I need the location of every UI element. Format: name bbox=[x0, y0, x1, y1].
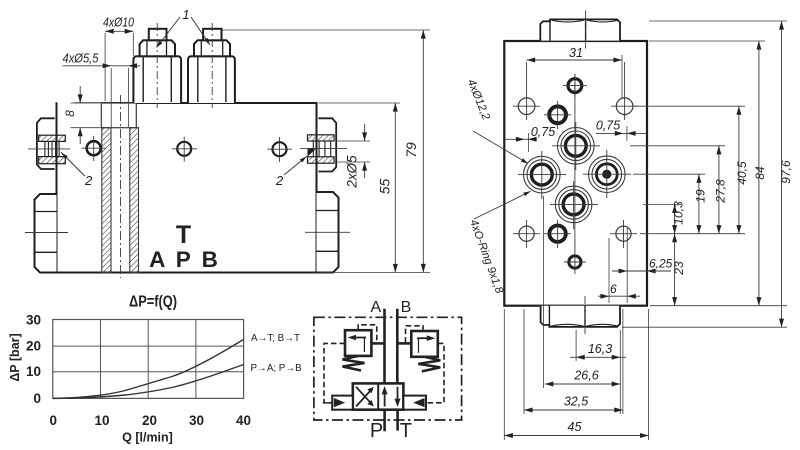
port label P bbox=[370, 420, 383, 442]
svg-text:26,6: 26,6 bbox=[573, 369, 598, 383]
right gland centerline bbox=[300, 148, 347, 150]
label 1 leader bbox=[155, 7, 212, 49]
relief valve left outlet bbox=[371, 342, 384, 345]
relief valve left spring bbox=[343, 356, 365, 371]
dimension 23 bbox=[672, 234, 686, 306]
relief valve left square bbox=[345, 330, 371, 356]
svg-text:B: B bbox=[202, 247, 218, 272]
svg-text:31: 31 bbox=[569, 46, 583, 60]
svg-text:ΔP [bar]: ΔP [bar] bbox=[8, 333, 22, 381]
relief valve right spring bbox=[418, 357, 440, 372]
relief valve right drain dashed bbox=[426, 343, 444, 402]
svg-text:T: T bbox=[400, 420, 412, 442]
actuator right bbox=[403, 396, 426, 410]
curve A-T B-T bbox=[53, 339, 244, 398]
dimension 8 bbox=[63, 86, 101, 144]
relief valve left pilot dashed bbox=[358, 325, 377, 344]
enclosure dash-dot box bbox=[314, 317, 462, 420]
directional valve left cell X bbox=[356, 387, 374, 407]
graph title bbox=[129, 294, 177, 311]
svg-text:T: T bbox=[176, 221, 191, 249]
port label A bbox=[370, 299, 381, 316]
fitting 2 centerline bbox=[211, 23, 213, 108]
svg-text:20: 20 bbox=[142, 413, 157, 428]
svg-text:84: 84 bbox=[753, 166, 767, 180]
svg-text:2: 2 bbox=[275, 173, 284, 188]
dimension 16,3 bbox=[570, 342, 626, 360]
svg-text:45: 45 bbox=[568, 420, 582, 434]
hole thin top-left bbox=[513, 62, 540, 120]
fitting 2 right top square bbox=[203, 29, 221, 41]
svg-text:20: 20 bbox=[26, 339, 41, 354]
svg-text:ΔP=f(Q): ΔP=f(Q) bbox=[129, 294, 177, 311]
extension lines right side bbox=[622, 21, 787, 327]
port letter A bbox=[149, 247, 165, 272]
hole big bottom bbox=[550, 181, 598, 229]
dimension 6,25 bbox=[609, 228, 673, 303]
svg-text:30: 30 bbox=[26, 313, 41, 328]
bore centerline bbox=[120, 95, 122, 278]
hole big left bbox=[518, 151, 566, 199]
hole big top bbox=[552, 122, 600, 170]
fitting 2 right mid hex bbox=[194, 40, 230, 56]
fitting 2 right base hex bbox=[188, 56, 235, 103]
hole thin bottom-left bbox=[513, 220, 540, 248]
dimension 40,5 bbox=[735, 106, 749, 234]
bore hatch right band bbox=[130, 128, 139, 273]
hole big right bbox=[583, 150, 631, 198]
svg-text:97,6: 97,6 bbox=[779, 160, 793, 184]
left gland fitting nut bbox=[37, 118, 55, 169]
svg-text:B: B bbox=[401, 299, 412, 316]
dimension 4xO5,5 bbox=[63, 52, 141, 128]
svg-text:10,3: 10,3 bbox=[672, 201, 686, 225]
y axis labels bbox=[26, 313, 41, 406]
left gland centerline bbox=[28, 148, 70, 150]
dimension 10,3 bbox=[672, 201, 686, 234]
port letter T bbox=[176, 221, 191, 249]
port hole right bbox=[267, 137, 292, 162]
directional valve body bbox=[353, 383, 404, 409]
dimension 19 bbox=[694, 174, 708, 234]
hole bold upper bbox=[544, 101, 571, 129]
line B bbox=[396, 309, 399, 384]
relief valve right pilot dashed bbox=[406, 326, 424, 344]
svg-text:Q [l/min]: Q [l/min] bbox=[122, 431, 173, 445]
relief valve left drain dashed bbox=[324, 343, 345, 402]
bottom tab hex bbox=[541, 296, 620, 334]
label 4xO12,2 bbox=[465, 78, 529, 166]
dimension 84 bbox=[753, 41, 767, 306]
svg-text:1: 1 bbox=[182, 7, 189, 22]
svg-text:6: 6 bbox=[610, 282, 617, 296]
relief valve right square bbox=[411, 331, 438, 357]
svg-text:8: 8 bbox=[63, 110, 77, 117]
relief valve right outlet bbox=[397, 342, 411, 345]
svg-text:10: 10 bbox=[94, 413, 109, 428]
svg-text:10: 10 bbox=[26, 364, 41, 379]
svg-text:23: 23 bbox=[672, 261, 686, 276]
dimension 79 bbox=[222, 30, 430, 273]
bore hatch left band bbox=[102, 128, 111, 273]
dimension 6 bbox=[598, 282, 640, 299]
fitting 1 left base hex bbox=[133, 56, 181, 103]
counterbore 4xO10 bbox=[101, 103, 136, 128]
svg-text:2xØ5: 2xØ5 bbox=[345, 155, 360, 189]
dimension 31 bbox=[527, 46, 622, 98]
svg-text:79: 79 bbox=[403, 142, 419, 158]
fitting 1 left top square bbox=[149, 29, 167, 41]
svg-text:0: 0 bbox=[33, 391, 41, 406]
left hex plug bbox=[25, 194, 68, 273]
line A bbox=[383, 309, 386, 384]
label 4xO-Ring 9x1,8 bbox=[467, 190, 531, 296]
dimension 4xO10 bbox=[103, 16, 134, 102]
hole small bottom bbox=[564, 74, 586, 274]
dimension 0,75 left bbox=[506, 125, 556, 152]
dimension 26,6 bbox=[545, 369, 621, 387]
right gland fitting nut bbox=[318, 118, 336, 171]
y axis title bbox=[8, 333, 22, 381]
dimension 32,5 bbox=[524, 395, 623, 413]
svg-text:4xØ10: 4xØ10 bbox=[103, 16, 134, 30]
port letter B bbox=[202, 247, 218, 272]
curve P-A P-B bbox=[53, 365, 244, 399]
curve label P-A bbox=[251, 363, 303, 374]
svg-text:A: A bbox=[149, 247, 165, 272]
port hole left bbox=[82, 136, 107, 161]
valve body outline bbox=[57, 102, 317, 272]
right hex plug bbox=[305, 192, 350, 273]
svg-text:0,75: 0,75 bbox=[531, 125, 555, 139]
port letter P bbox=[176, 247, 191, 272]
dimension 2xO5 bbox=[337, 124, 371, 189]
svg-text:30: 30 bbox=[189, 413, 204, 428]
dimension 0,75 right bbox=[596, 119, 647, 142]
svg-text:0: 0 bbox=[50, 413, 58, 428]
hole small top bbox=[563, 74, 587, 98]
hole thin bottom-right bbox=[610, 220, 637, 248]
svg-text:6,25: 6,25 bbox=[649, 257, 673, 271]
svg-text:0,75: 0,75 bbox=[596, 119, 620, 133]
left gland tube hatched bbox=[39, 135, 66, 164]
svg-text:2: 2 bbox=[84, 173, 93, 188]
svg-text:55: 55 bbox=[377, 179, 393, 195]
svg-text:P→A; P→B: P→A; P→B bbox=[251, 363, 303, 374]
hole thin top-right bbox=[611, 62, 638, 120]
line P bbox=[383, 410, 386, 432]
svg-text:19: 19 bbox=[694, 189, 708, 203]
line T bbox=[396, 410, 399, 431]
dimension 27,8 bbox=[714, 146, 728, 234]
svg-text:27,8: 27,8 bbox=[714, 179, 728, 204]
top tab hex bbox=[540, 11, 620, 49]
port label T bbox=[400, 420, 412, 442]
port hole middle bbox=[172, 137, 197, 162]
plate outline bbox=[504, 41, 647, 306]
svg-text:P: P bbox=[370, 420, 383, 442]
label 2 right leader bbox=[275, 155, 308, 188]
hole bold lower bbox=[544, 220, 571, 248]
svg-text:A: A bbox=[370, 299, 381, 316]
svg-text:4xØ5,5: 4xØ5,5 bbox=[63, 52, 99, 66]
svg-text:40,5: 40,5 bbox=[735, 161, 749, 185]
directional valve right cell arrows bbox=[382, 386, 401, 407]
x axis labels bbox=[50, 413, 251, 428]
actuator left bbox=[323, 396, 353, 410]
port label B bbox=[401, 299, 412, 316]
extension lines bottom bbox=[504, 196, 648, 440]
svg-text:16,3: 16,3 bbox=[588, 342, 612, 356]
right gland tube hatched bbox=[308, 135, 335, 163]
svg-text:P: P bbox=[176, 247, 191, 272]
plot frame and grid bbox=[53, 320, 244, 399]
dimension 45 bbox=[504, 420, 648, 438]
svg-text:A→T; B→T: A→T; B→T bbox=[251, 333, 300, 344]
label 2 left leader bbox=[60, 151, 93, 188]
x axis title bbox=[122, 431, 173, 445]
curve label A-T bbox=[251, 333, 300, 344]
dimension 55 bbox=[319, 103, 401, 273]
fitting 1 centerline bbox=[156, 23, 158, 108]
svg-text:40: 40 bbox=[236, 413, 251, 428]
dimension 97,6 bbox=[779, 21, 793, 327]
fitting 1 left mid hex bbox=[140, 40, 175, 56]
svg-text:32,5: 32,5 bbox=[564, 395, 588, 409]
